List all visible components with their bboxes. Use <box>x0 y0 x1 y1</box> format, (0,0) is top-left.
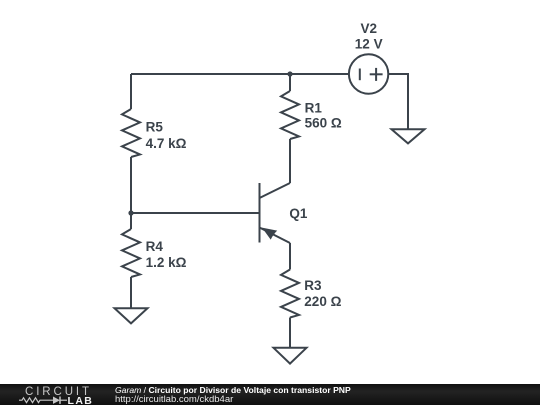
svg-text:R3: R3 <box>304 278 322 293</box>
ground (below R4) <box>115 308 148 323</box>
wire base (node A to Q1 base) <box>131 212 260 214</box>
wire R4 bottom to ground <box>130 277 132 308</box>
wire Q1 emitter to R3 top <box>289 243 291 270</box>
V2 minus terminal bar <box>359 69 361 81</box>
svg-text:Q1: Q1 <box>289 206 308 221</box>
footer bar <box>0 384 540 405</box>
credit text <box>115 386 351 404</box>
transistor Q1 base bar <box>259 183 261 243</box>
transistor Q1 collector lead <box>260 183 291 198</box>
V2 plus sign <box>370 68 383 81</box>
resistor R1 <box>281 91 299 139</box>
svg-text:12 V: 12 V <box>355 36 383 51</box>
voltage source V2 body <box>349 54 388 93</box>
wire R1 bottom to Q1 collector <box>289 139 291 183</box>
svg-text:R5: R5 <box>146 119 164 134</box>
svg-text:V2: V2 <box>360 21 377 36</box>
svg-text:220 Ω: 220 Ω <box>304 294 341 309</box>
ground (below V2) <box>392 129 425 143</box>
resistor R5 <box>122 109 140 157</box>
resistor R3 <box>281 270 299 318</box>
transistor Q1 emitter PNP arrow <box>262 228 277 240</box>
wire node A to R4 top <box>130 213 132 229</box>
svg-text:4.7 kΩ: 4.7 kΩ <box>146 136 187 151</box>
junction node A (R5 / R4 / base) <box>128 210 133 215</box>
ground (below R3) <box>274 348 307 364</box>
resistor R4 <box>122 229 140 277</box>
junction node (top rail / R1) <box>287 71 292 76</box>
svg-text:560 Ω: 560 Ω <box>305 116 342 131</box>
transistor Q1 emitter lead <box>260 228 291 244</box>
svg-text:LAB: LAB <box>68 395 94 405</box>
svg-text:R4: R4 <box>146 239 164 254</box>
wire V2 negative terminal to ground <box>388 74 408 129</box>
wire R5 bottom to node A <box>130 157 132 213</box>
svg-text:R1: R1 <box>305 100 323 115</box>
svg-text:1.2 kΩ: 1.2 kΩ <box>146 255 187 270</box>
wire top rail (V2+ to R5/R1 node) <box>131 73 349 75</box>
CircuitLab logo <box>15 384 115 405</box>
wire R3 bottom to ground <box>289 318 291 348</box>
wire R1 top lead <box>289 74 291 91</box>
wire left rail to R5 top <box>130 74 132 109</box>
